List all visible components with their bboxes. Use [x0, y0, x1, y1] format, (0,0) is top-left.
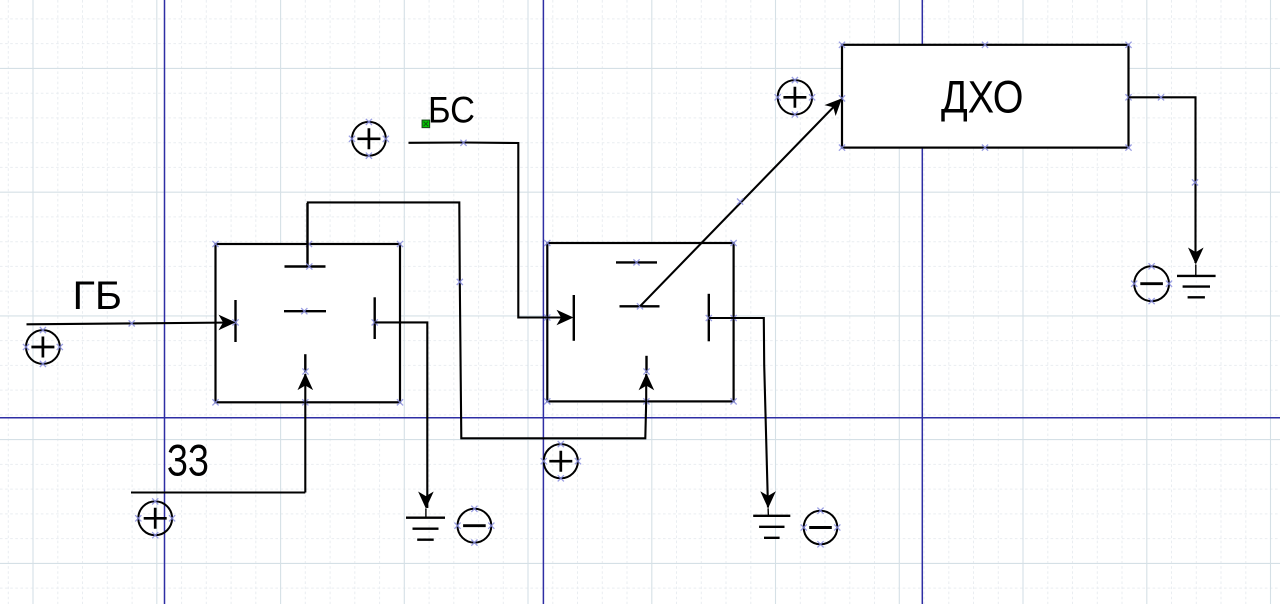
relay K1 body [212, 241, 403, 406]
ground GND2 [753, 516, 790, 538]
wire relay K2 pin 87 to ground, with arrow [709, 318, 776, 516]
relay K1 pin 87a contact (top, normally closed) [285, 203, 326, 270]
plus terminal mid [541, 441, 581, 481]
relay K2 movable contact (middle bar) [620, 303, 660, 309]
relay K2 pin 87 contact (right) [706, 294, 712, 342]
plus terminal ДХО [775, 77, 816, 118]
relay K2 body [544, 240, 737, 405]
svg-text:ГБ: ГБ [73, 274, 123, 318]
wire ЗЗ ignition to relay K1 coil, with arrow [131, 373, 313, 492]
wire ГБ input to relay K1 pin 30, with arrow [27, 315, 236, 331]
ground GND3 [1177, 276, 1216, 297]
ground GND1 [406, 518, 445, 540]
wire relay K1 pin 87a to relay K2 coil, with arrow [307, 202, 654, 438]
minus terminal near GND3 [1131, 263, 1172, 304]
plus terminal БС [349, 119, 389, 159]
DRL unit ДХО box [839, 42, 1132, 151]
relay K2 coil pin stub (bottom) [643, 356, 649, 375]
plus terminal ЗЗ [135, 498, 175, 538]
minus terminal near GND1 [454, 506, 494, 546]
green handle marker [422, 120, 430, 128]
relay K1 pin 30 contact (left) [232, 300, 238, 342]
svg-text:БС: БС [428, 90, 475, 131]
svg-text:ДХО: ДХО [941, 72, 1024, 123]
wire БС to relay K2 pin 30, with arrow [409, 140, 574, 326]
plus terminal ГБ [23, 327, 63, 367]
minus terminal near GND2 [801, 508, 841, 548]
relay K1 movable contact (middle) [284, 308, 326, 314]
relay K1 coil pin stub (bottom) [302, 354, 308, 374]
wire relay K2 movable contact to DRL unit, diagonal with arrow [640, 93, 847, 306]
relay K1 pin 87 contact (right) [372, 297, 378, 339]
relay K2 pin 87a contact (top bar) [616, 259, 657, 265]
wire relay K1 pin 87 to ground, with arrow [375, 322, 434, 517]
wire DRL unit output to ground, with arrow [1129, 94, 1204, 275]
relay K2 pin 30 contact (left) [573, 295, 575, 341]
svg-text:ЗЗ: ЗЗ [167, 436, 209, 485]
